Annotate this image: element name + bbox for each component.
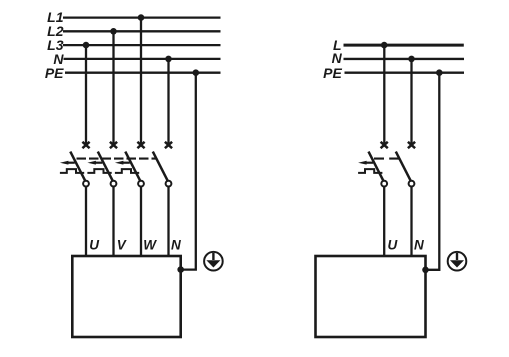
breaker Q2 thermal element [358, 169, 382, 173]
terminal label W [143, 237, 157, 252]
breaker Q1 blade pole4 [153, 152, 168, 182]
terminal label V [117, 237, 127, 252]
breaker Q1 release arrow pole2 [87, 161, 102, 165]
breaker Q1 terminal x pole2 [110, 142, 117, 148]
wire W to motor [140, 186, 142, 257]
junction dot PE tap [193, 69, 200, 76]
label PE right [323, 65, 342, 81]
svg-text:N: N [171, 237, 181, 252]
breaker Q2 linkage dashed [374, 158, 400, 160]
svg-text:V: V [117, 237, 127, 252]
svg-text:PE: PE [323, 65, 342, 81]
breaker Q2 terminal x pole2 [408, 142, 415, 148]
terminal label N right [414, 237, 424, 252]
label L3 [47, 37, 64, 53]
breaker Q1 linkage dashed [77, 158, 158, 160]
wire V to motor [112, 186, 114, 257]
breaker Q2 blade pole2 [396, 152, 411, 182]
breaker Q1 contact circle pole1 [83, 181, 89, 187]
breaker Q2 release arrow [358, 161, 373, 165]
load box M2 [316, 256, 426, 337]
bus PE right [345, 72, 465, 74]
breaker Q1 thermal element pole1 [60, 169, 84, 173]
label L2 [47, 23, 64, 39]
breaker Q1 contact circle pole2 [111, 181, 117, 187]
breaker Q2 terminal x pole1 [381, 142, 388, 148]
breaker Q1 terminal x pole3 [137, 142, 144, 148]
breaker Q1 thermal element pole2 [87, 169, 111, 173]
bus L right [344, 44, 464, 47]
earth symbol right [448, 252, 467, 271]
wire N drop right [410, 59, 412, 145]
svg-text:N: N [332, 50, 343, 66]
svg-text:U: U [388, 237, 399, 252]
breaker Q1 blade pole1 [70, 152, 85, 182]
svg-text:N: N [414, 237, 424, 252]
junction dot PE at box right [422, 267, 429, 274]
breaker Q1 release arrow pole3 [115, 161, 130, 165]
breaker Q2 contact circle pole1 [381, 181, 387, 187]
label N [53, 51, 64, 67]
bus L3 [63, 44, 221, 46]
junction dot L3 tap [83, 42, 90, 49]
breaker Q1 thermal element pole3 [115, 169, 139, 173]
wire L2 drop [112, 31, 114, 145]
breaker Q1 terminal x pole1 [82, 142, 89, 148]
motor box M1 [72, 256, 180, 337]
wire L drop right [383, 45, 385, 145]
junction dot L1 tap [138, 14, 145, 21]
junction dot N tap right [408, 56, 415, 63]
junction dot L2 tap [110, 28, 117, 35]
label L right [333, 37, 342, 53]
bus N [64, 58, 221, 60]
wire U to load right [383, 186, 385, 257]
breaker Q2 contact circle pole2 [409, 181, 415, 187]
bus PE [65, 72, 221, 74]
svg-text:U: U [89, 237, 100, 252]
wire L1 drop [140, 18, 142, 145]
breaker Q1 terminal x pole4 [165, 142, 172, 148]
wire N to load right [410, 186, 412, 257]
breaker Q1 contact circle pole3 [138, 181, 144, 187]
junction dot N tap [165, 56, 172, 63]
wire N to motor [167, 186, 169, 257]
terminal label U [89, 237, 100, 252]
wire PE drop [181, 73, 196, 270]
wire U to motor [85, 186, 87, 257]
label L1 [47, 9, 64, 25]
svg-text:PE: PE [45, 65, 64, 81]
junction dot PE at box [177, 266, 184, 273]
breaker Q1 blade pole3 [125, 152, 140, 182]
wire N drop [167, 59, 169, 145]
terminal label N [171, 237, 181, 252]
earth symbol left [204, 252, 223, 271]
terminal label U right [388, 237, 399, 252]
breaker Q1 contact circle pole4 [166, 181, 172, 187]
bus L1 [63, 16, 221, 18]
breaker Q1 release arrow pole1 [60, 161, 75, 165]
wire L3 drop [85, 45, 87, 145]
breaker Q2 blade pole1 [369, 152, 384, 182]
wire PE drop right [426, 73, 440, 270]
label PE [45, 65, 64, 81]
bus N right [344, 58, 465, 60]
breaker Q1 blade pole2 [98, 152, 113, 182]
bus L2 [63, 30, 221, 32]
svg-text:W: W [143, 237, 157, 252]
junction dot PE tap right [436, 69, 443, 76]
junction dot L tap right [381, 42, 388, 49]
label N right [332, 50, 343, 66]
